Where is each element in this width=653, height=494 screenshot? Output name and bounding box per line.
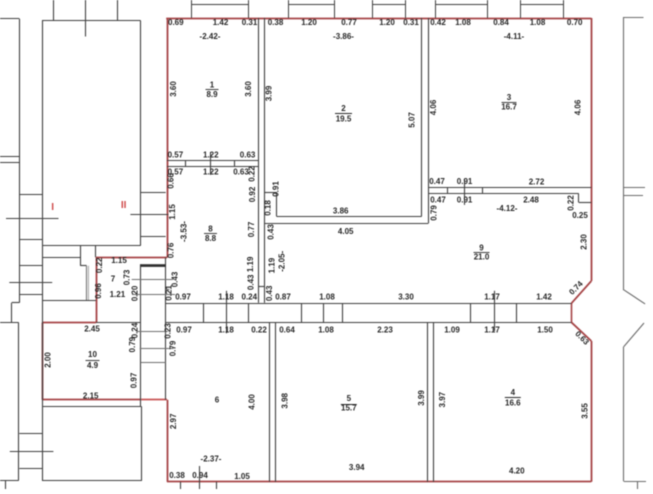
svg-text:2.45: 2.45: [84, 325, 100, 334]
svg-text:-2.05-: -2.05-: [277, 251, 286, 272]
corridor wall tick 2: [248, 303, 250, 322]
svg-text:-4.12-: -4.12-: [497, 204, 518, 213]
svg-text:15.7: 15.7: [341, 404, 357, 413]
svg-text:7: 7: [111, 275, 116, 284]
wall room1-room8 tick c: [234, 160, 236, 167]
svg-text:0.84: 0.84: [493, 18, 509, 27]
lower annex east wall: [141, 406, 143, 481]
svg-text:6: 6: [215, 396, 220, 405]
wall room3-room9 notch h: [579, 202, 592, 204]
big hall top wall: [42, 20, 141, 22]
svg-text:-2.42-: -2.42-: [200, 32, 221, 41]
svg-text:1.20: 1.20: [301, 18, 317, 27]
left building bottom edge: [0, 480, 19, 482]
svg-text:2.15: 2.15: [83, 392, 99, 401]
room 1 label fraction line: [206, 89, 219, 91]
svg-text:4.9: 4.9: [87, 361, 99, 370]
svg-text:0.24: 0.24: [242, 293, 258, 302]
east building bottom edge: [624, 481, 646, 483]
svg-text:8.9: 8.9: [206, 90, 218, 99]
red boundary left wall lower: [167, 400, 169, 482]
svg-text:1.42: 1.42: [213, 18, 229, 27]
dim line room7 a: [132, 279, 173, 281]
svg-text:1.22: 1.22: [203, 168, 219, 177]
red boundary room10 west wall: [42, 323, 44, 400]
corridor wall tick 1: [203, 303, 205, 322]
svg-text:0.69: 0.69: [168, 18, 184, 27]
svg-text:1.17: 1.17: [484, 325, 500, 334]
svg-text:0.43: 0.43: [267, 224, 276, 240]
svg-text:0.38: 0.38: [169, 471, 185, 480]
room 5 label fraction line: [341, 404, 357, 406]
east building top edge: [623, 17, 644, 19]
svg-text:0.42: 0.42: [430, 18, 446, 27]
svg-text:8.8: 8.8: [205, 234, 217, 243]
window 1 jamb left: [191, 0, 193, 18]
svg-text:3.60: 3.60: [244, 81, 253, 97]
neighbour wall south: [42, 257, 80, 259]
wall room3-room9 tick c: [482, 188, 484, 194]
red boundary right wall lower: [591, 341, 593, 482]
svg-text:4.05: 4.05: [338, 227, 354, 236]
strip rung 1: [19, 194, 42, 196]
window 1 outer line: [191, 4, 248, 6]
strip rung 4: [19, 294, 42, 296]
svg-text:0.18: 0.18: [264, 200, 273, 216]
svg-text:2.72: 2.72: [529, 178, 545, 187]
window 3 outer line: [373, 4, 406, 6]
wall room8-room2 west line: [258, 18, 260, 303]
svg-text:0.22: 0.22: [567, 195, 576, 211]
wall room3-room9 lower line: [428, 193, 579, 195]
svg-text:1.18: 1.18: [218, 325, 234, 334]
left building top edge: [0, 18, 19, 20]
room 10 label fraction line: [86, 360, 100, 362]
strip rung 6: [19, 468, 42, 470]
svg-text:0.25: 0.25: [572, 211, 588, 220]
svg-text:4.06: 4.06: [429, 99, 438, 115]
svg-text:2.48: 2.48: [523, 196, 539, 205]
bottom tick a: [180, 482, 182, 489]
svg-text:1: 1: [210, 81, 215, 90]
svg-text:0.77: 0.77: [247, 221, 256, 237]
corridor wall tall tick a: [226, 291, 228, 334]
svg-text:3.55: 3.55: [581, 403, 590, 419]
corridor wall tick 7: [516, 303, 518, 322]
wall room1-room8 lower line: [167, 166, 258, 168]
svg-text:0.97: 0.97: [175, 293, 191, 302]
svg-text:-2.37-: -2.37-: [201, 455, 222, 464]
east building west wall lower: [623, 347, 625, 482]
svg-text:3.98: 3.98: [281, 392, 290, 408]
window 3 jamb left: [372, 0, 374, 18]
corridor wall tall tick b: [494, 291, 496, 331]
wall room3-room9 notch v: [578, 194, 580, 203]
corridor wall upper line: [166, 303, 572, 305]
svg-text:2.00: 2.00: [44, 352, 53, 368]
east building chamfer lower: [624, 323, 644, 347]
wall room3-room9 upper line: [428, 187, 591, 189]
wall room8-room2 east line: [264, 18, 266, 303]
window 5 outer line: [520, 4, 563, 6]
svg-text:0.96: 0.96: [94, 283, 103, 299]
room 2 label fraction line: [335, 113, 352, 115]
wall room6-room5 east line: [275, 322, 277, 482]
svg-text:0.91: 0.91: [272, 181, 281, 197]
svg-text:2.97: 2.97: [169, 413, 178, 429]
svg-text:0.77: 0.77: [341, 18, 357, 27]
svg-text:3.99: 3.99: [417, 390, 426, 406]
left building jog top: [12, 302, 20, 304]
window 5 jamb right: [563, 0, 565, 18]
svg-text:5: 5: [347, 394, 352, 403]
svg-text:0.92: 0.92: [248, 186, 257, 202]
door sill: [80, 265, 86, 267]
svg-text:0.91: 0.91: [457, 177, 473, 186]
east building rung b: [623, 195, 643, 197]
svg-text:8: 8: [208, 225, 213, 234]
svg-text:2.30: 2.30: [580, 234, 589, 250]
shaft rung c: [141, 236, 166, 238]
red boundary top wall: [166, 18, 591, 20]
svg-text:0.47: 0.47: [430, 196, 446, 205]
dim line room10 a: [137, 331, 168, 333]
svg-text:1.09: 1.09: [444, 325, 460, 334]
svg-text:0.22: 0.22: [251, 325, 267, 334]
svg-text:0.87: 0.87: [275, 293, 291, 302]
svg-text:0.22: 0.22: [248, 166, 257, 182]
shaft east wall: [165, 258, 167, 400]
wall room2-room9 upper line: [277, 216, 422, 218]
svg-text:I: I: [51, 202, 54, 213]
big hall east wall: [140, 21, 142, 246]
dim tick shaft: [166, 289, 170, 291]
corridor wall tick 4: [323, 303, 325, 322]
svg-text:4.06: 4.06: [574, 99, 583, 115]
svg-text:1.19: 1.19: [267, 257, 276, 273]
bottom tick c: [216, 482, 218, 489]
door jamb room2: [276, 192, 278, 216]
svg-text:0.91: 0.91: [457, 196, 473, 205]
strip rung 3: [19, 265, 42, 267]
big hall tick c: [117, 0, 119, 21]
window 1 jamb right: [248, 0, 250, 18]
svg-text:0.70: 0.70: [567, 18, 583, 27]
dim line room7 b: [132, 294, 175, 296]
svg-text:0.73: 0.73: [123, 269, 132, 285]
svg-text:0.97: 0.97: [130, 372, 139, 388]
red boundary right wall upper: [591, 18, 593, 281]
wall room1-room8 tick a: [185, 160, 187, 167]
svg-text:0.31: 0.31: [403, 18, 419, 27]
left building west wall upper: [19, 19, 21, 303]
wall room8-room2 cap: [258, 286, 265, 288]
svg-text:1.19: 1.19: [246, 256, 255, 272]
svg-text:10: 10: [88, 350, 97, 359]
window 3 jamb right: [405, 0, 407, 18]
left building bottom tick: [5, 480, 7, 489]
red boundary room7 west wall: [96, 257, 98, 322]
red boundary room10 south wall west part: [42, 399, 141, 401]
svg-text:0.63: 0.63: [240, 151, 256, 160]
svg-text:0.47: 0.47: [429, 177, 445, 186]
east building chamfer upper: [623, 289, 645, 304]
corridor wall tick 3: [301, 303, 303, 322]
svg-text:4: 4: [511, 388, 516, 397]
svg-text:4.00: 4.00: [248, 394, 257, 410]
svg-text:16.6: 16.6: [505, 398, 521, 407]
wall room3-room9 tick a: [447, 188, 449, 194]
strip rung 2: [19, 239, 42, 241]
corridor wall lower line east: [166, 322, 572, 324]
svg-text:2: 2: [341, 104, 346, 113]
svg-text:1.22: 1.22: [203, 151, 219, 160]
bottom tick b: [199, 466, 201, 489]
room 3 label fraction line: [502, 102, 517, 104]
svg-text:0.38: 0.38: [268, 18, 284, 27]
door tick room2: [265, 192, 277, 194]
svg-text:0.22: 0.22: [95, 257, 104, 273]
svg-text:2.23: 2.23: [377, 325, 393, 334]
shaft rung a: [141, 192, 166, 194]
cross line a: [6, 218, 59, 220]
svg-text:19.5: 19.5: [336, 114, 352, 123]
svg-text:-4.11-: -4.11-: [504, 32, 525, 41]
svg-text:0.31: 0.31: [242, 18, 258, 27]
window 4 outer line: [435, 4, 487, 6]
red boundary room7 north wall: [96, 257, 167, 259]
left building west wall lower: [18, 323, 20, 481]
neighbour room south wall: [42, 300, 96, 302]
svg-text:0.76: 0.76: [166, 242, 175, 258]
svg-text:-3.86-: -3.86-: [333, 32, 354, 41]
svg-text:1.21: 1.21: [110, 290, 126, 299]
svg-text:1.42: 1.42: [536, 293, 552, 302]
left edge rung b: [0, 162, 19, 164]
svg-text:-3.53-: -3.53-: [180, 221, 189, 242]
corridor wall lower line west: [96, 322, 140, 324]
cross line c: [10, 451, 54, 453]
svg-text:5.07: 5.07: [408, 112, 417, 128]
wall room5-room4 east line: [433, 322, 435, 482]
window 4 jamb left: [435, 0, 437, 18]
svg-text:9: 9: [479, 244, 484, 253]
svg-text:1.08: 1.08: [318, 325, 334, 334]
shaft rung b: [130, 214, 168, 216]
duct line b: [88, 266, 90, 301]
svg-text:3.86: 3.86: [333, 207, 349, 216]
big hall tick a: [53, 0, 55, 21]
svg-text:0.43: 0.43: [265, 285, 274, 301]
window 2 jamb right: [334, 0, 336, 18]
left edge rung a: [0, 156, 19, 158]
svg-text:1.08: 1.08: [319, 293, 335, 302]
svg-text:1.05: 1.05: [234, 472, 250, 481]
svg-text:3.97: 3.97: [438, 391, 447, 407]
window 5 jamb left: [520, 0, 522, 18]
svg-text:0.94: 0.94: [192, 471, 208, 480]
east building bottom tick: [637, 481, 639, 489]
wall room5-room4 west line: [427, 322, 429, 482]
east building west wall upper: [623, 17, 625, 289]
window 2 jamb left: [288, 0, 290, 18]
svg-text:1.15: 1.15: [168, 204, 177, 220]
svg-text:3: 3: [507, 93, 512, 102]
svg-text:0.23: 0.23: [164, 323, 173, 339]
east building rung a: [623, 187, 645, 189]
svg-text:0.66: 0.66: [167, 173, 176, 189]
svg-text:II: II: [121, 200, 127, 211]
door jamb a: [80, 246, 82, 266]
svg-text:0.43: 0.43: [171, 271, 180, 287]
shaft west wall: [140, 264, 142, 406]
red boundary chamfer mid: [571, 303, 573, 322]
svg-text:0.79: 0.79: [430, 205, 439, 221]
big hall tick b: [85, 0, 87, 37]
wall room1-room8 tick b: [210, 152, 212, 175]
cross line b: [9, 282, 52, 284]
svg-text:0.24: 0.24: [131, 322, 140, 338]
room 8 label fraction line: [204, 233, 217, 235]
big hall bottom wall: [42, 245, 141, 247]
strip rung 5: [19, 433, 42, 435]
svg-text:1.17: 1.17: [484, 293, 500, 302]
dim line room10 b: [140, 348, 174, 350]
svg-text:3.99: 3.99: [265, 85, 274, 101]
svg-text:1.20: 1.20: [379, 18, 395, 27]
shaft thick wall bar: [140, 264, 165, 267]
door jamb b: [95, 246, 97, 258]
svg-text:3.94: 3.94: [349, 463, 365, 472]
svg-text:0.79: 0.79: [169, 340, 178, 356]
svg-text:0.21: 0.21: [165, 285, 174, 301]
svg-text:1.08: 1.08: [530, 18, 546, 27]
room 9 label fraction line: [474, 252, 490, 254]
svg-text:16.7: 16.7: [501, 103, 517, 112]
svg-text:0.97: 0.97: [176, 325, 192, 334]
duct line a: [86, 266, 88, 301]
lower annex top wall: [42, 406, 141, 408]
corridor wall tick 5: [342, 303, 344, 322]
wall room3-room9 tick b: [464, 179, 466, 205]
svg-text:1.15: 1.15: [111, 256, 127, 265]
svg-text:4.20: 4.20: [509, 467, 525, 476]
red boundary chamfer upper: [571, 281, 591, 303]
svg-text:0.64: 0.64: [279, 325, 295, 334]
wall room2-room3 west line: [421, 18, 423, 216]
red boundary room10 north wall: [42, 322, 96, 324]
window 4 jamb right: [487, 0, 489, 18]
left building jog vertical: [11, 303, 13, 323]
svg-text:3.30: 3.30: [398, 293, 414, 302]
window 2 outer line: [288, 4, 334, 6]
svg-text:21.0: 21.0: [474, 253, 490, 262]
dim line room10 c: [141, 362, 166, 364]
wall room6-room5 west line: [269, 322, 271, 482]
svg-text:0.43: 0.43: [247, 274, 256, 290]
left building jog bottom: [0, 322, 19, 324]
svg-text:0.79: 0.79: [128, 336, 137, 352]
wall room1-room8 upper line: [167, 160, 258, 162]
svg-text:1.08: 1.08: [455, 18, 471, 27]
wall room2-room9 lower line: [265, 223, 429, 225]
red boundary left wall upper: [167, 18, 169, 258]
lower annex bottom wall: [42, 480, 141, 482]
red boundary chamfer lower: [571, 322, 591, 341]
wall room2-room3 east line: [428, 18, 430, 223]
svg-text:1.50: 1.50: [537, 325, 553, 334]
svg-text:1.18: 1.18: [218, 293, 234, 302]
svg-text:0.57: 0.57: [168, 151, 184, 160]
svg-text:3.60: 3.60: [169, 81, 178, 97]
room 4 label fraction line: [505, 397, 521, 399]
red boundary room10 south wall east part: [141, 399, 167, 401]
corridor wall tick 6: [470, 303, 472, 322]
svg-text:0.20: 0.20: [131, 285, 140, 301]
left building inner wall: [42, 21, 44, 481]
red boundary bottom wall: [167, 481, 591, 483]
